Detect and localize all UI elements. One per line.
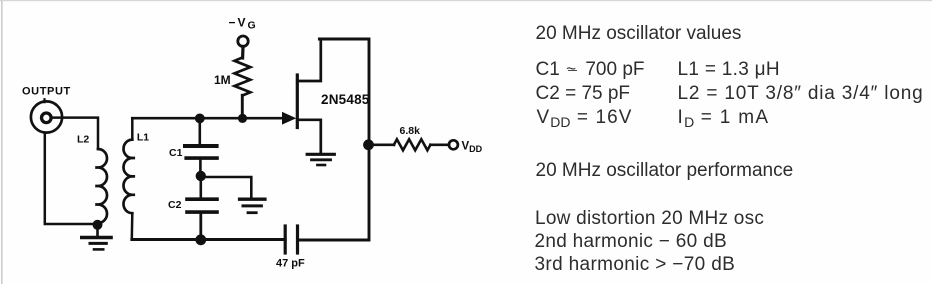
node D (C2 bottom on rail): [195, 234, 206, 245]
connector J1 (OUTPUT jack): [31, 99, 62, 132]
svg-text:−VG: −VG: [229, 15, 258, 31]
node A (C1 top): [195, 114, 205, 124]
wire: drain top rail: [319, 39, 369, 143]
ground G2 (C1/C2 junction): [240, 199, 265, 213]
wire: node to R2: [369, 143, 394, 146]
scan border line left edge: [1, 0, 3, 284]
ground G3 (source): [307, 154, 334, 165]
capacitor C2: [187, 176, 217, 238]
scan border line top edge: [0, 0, 932, 1]
inductor L1: [123, 140, 135, 214]
svg-text:VDD: VDD: [462, 141, 483, 155]
svg-text:6.8k: 6.8k: [400, 125, 421, 137]
wire: 47pF right to drain node vertical: [298, 146, 370, 240]
svg-text:47 pF: 47 pF: [276, 258, 305, 270]
note: C1 value: [536, 60, 645, 79]
node B (1M bottom / gate): [238, 114, 247, 123]
wire: jack bottom to ground node: [45, 134, 92, 225]
source lead: [297, 120, 321, 152]
svg-text:C2: C2: [168, 199, 182, 211]
wire: jack to L2 top: [52, 118, 98, 149]
svg-text:1M: 1M: [214, 73, 231, 87]
transistor Q1 2N5485: [283, 40, 321, 152]
wire: VG terminal to R1: [241, 46, 245, 58]
wire: main top rail L1 to gate: [132, 117, 285, 120]
note: C2 value: [536, 84, 631, 103]
wire: junction to ground G2: [201, 177, 252, 198]
note: oscillator values heading: [536, 24, 742, 43]
terminal -VG: [238, 36, 248, 46]
terminal VDD: [449, 140, 458, 149]
node: L2 bottom junction: [93, 220, 103, 230]
inductor L2: [95, 149, 107, 223]
node E (drain / 6.8k junction): [363, 139, 374, 150]
svg-text:OUTPUT: OUTPUT: [22, 86, 71, 98]
note: performance line 1: [535, 209, 764, 228]
wire: bottom rail: [132, 238, 285, 241]
note: performance line 3: [535, 255, 736, 274]
ground G1 (below L2): [82, 228, 111, 249]
wire: R2 to VDD terminal: [431, 143, 450, 146]
note: oscillator performance heading: [536, 161, 794, 180]
drain lead: [297, 40, 321, 81]
svg-text:L1: L1: [137, 132, 149, 144]
resistor R2 6.8k: [394, 139, 431, 150]
channel bar: [296, 75, 299, 128]
note: VDD value: [537, 108, 633, 127]
svg-text:C1: C1: [169, 147, 183, 159]
gate arrow: [283, 113, 296, 124]
resistor R1 1M: [235, 58, 251, 96]
wire: R1 to gate node: [241, 95, 244, 118]
note: L2 value: [678, 84, 924, 103]
capacitor C3 47pF: [285, 226, 297, 253]
node C (C1/C2 junction): [196, 171, 206, 181]
note: L1 value: [678, 60, 780, 79]
svg-text:2N5485: 2N5485: [321, 92, 370, 107]
wire: L1 bottom lead to bottom rail: [131, 213, 134, 239]
svg-text:L2: L2: [77, 134, 89, 146]
note: performance line 2: [535, 232, 727, 251]
capacitor C1: [185, 118, 217, 173]
wire: L1 top lead: [131, 118, 134, 139]
note: ID value: [678, 108, 770, 127]
